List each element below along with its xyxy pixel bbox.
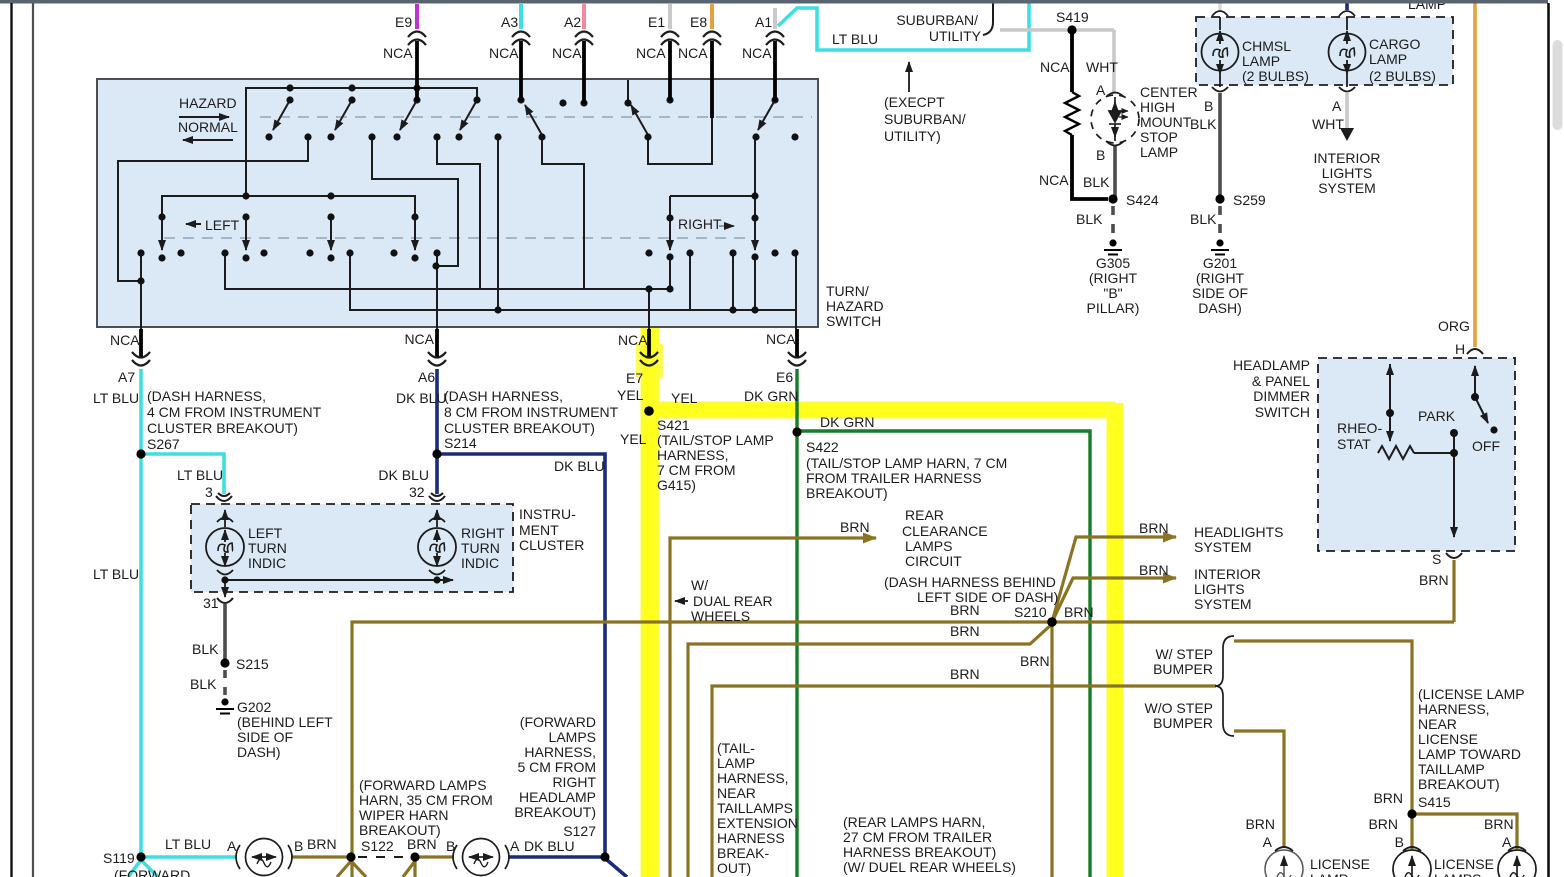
svg-text:DK GRN: DK GRN (744, 388, 798, 404)
svg-text:CLEARANCE: CLEARANCE (902, 523, 988, 539)
right direction arrow (719, 225, 734, 227)
wire BLK S424 to ground dashed (1111, 206, 1115, 236)
svg-text:NCA: NCA (489, 45, 519, 61)
svg-text:S214: S214 (444, 435, 477, 451)
svg-text:HARN, 35 CM FROM: HARN, 35 CM FROM (359, 792, 493, 808)
svg-text:5 CM FROM: 5 CM FROM (517, 759, 596, 775)
connector E1 (661, 32, 679, 46)
svg-text:(REAR LAMPS HARN,: (REAR LAMPS HARN, (843, 814, 985, 830)
svg-text:B: B (1096, 147, 1105, 163)
wire S122 dashed link (358, 856, 410, 858)
cargo lamp bulb (1329, 11, 1366, 92)
wire NCA E1 into box (668, 41, 672, 101)
svg-text:BUMPER: BUMPER (1153, 661, 1213, 677)
svg-text:E1: E1 (648, 14, 665, 30)
svg-text:SWITCH: SWITCH (1255, 404, 1310, 420)
wire LT BLU from A1 to suburban/utility (778, 1, 1029, 50)
svg-text:STOP: STOP (1140, 129, 1178, 145)
wire NCA A1 into box (773, 41, 777, 101)
switch blade hazard 1 (273, 100, 290, 130)
right turn indicator bulb (418, 510, 456, 575)
svg-text:INDIC: INDIC (461, 555, 499, 571)
svg-text:DK BLU: DK BLU (396, 390, 447, 406)
svg-text:(DASH HARNESS BEHIND: (DASH HARNESS BEHIND (884, 574, 1056, 590)
wire net blade3 to E7 bus (437, 137, 480, 289)
svg-text:"B": "B" (1103, 285, 1122, 301)
node S424 (1108, 194, 1117, 203)
svg-text:YEL: YEL (617, 387, 644, 403)
svg-text:S119: S119 (103, 850, 135, 866)
svg-text:8 CM FROM INSTRUMENT: 8 CM FROM INSTRUMENT (444, 404, 619, 420)
svg-text:SIDE OF: SIDE OF (237, 729, 293, 745)
wire right section bus (628, 80, 755, 218)
svg-text:DK GRN: DK GRN (820, 414, 874, 430)
wire BRN w/o step bumper to license lamp (1234, 731, 1284, 847)
wire YEL vertical right branch to rear lamps (1107, 403, 1124, 877)
svg-text:NCA: NCA (766, 331, 796, 347)
svg-text:BLK: BLK (1076, 211, 1103, 227)
svg-text:LAMP: LAMP (1140, 144, 1178, 160)
scrollbar thumb (1553, 40, 1563, 130)
svg-text:YEL: YEL (671, 390, 698, 406)
switch blade hazard 6 (631, 105, 648, 135)
svg-text:MOUNT: MOUNT (1140, 114, 1192, 130)
svg-text:LICENSE: LICENSE (1418, 731, 1478, 747)
wire BRN S415 to license lamp A (1412, 814, 1517, 849)
wire DK GRN S422 branch right (797, 431, 1090, 877)
hazard direction arrow (179, 116, 229, 118)
license lamp A (1498, 847, 1536, 877)
connector A3 (512, 32, 530, 46)
node S215 (220, 658, 229, 667)
wire NCA E9 into box (415, 41, 419, 101)
svg-text:HAZARD: HAZARD (179, 95, 237, 111)
wire CHMSL stub to top (1218, 1, 1222, 10)
svg-text:LEFT SIDE OF DASH): LEFT SIDE OF DASH) (917, 589, 1058, 605)
license lamp B (1393, 847, 1431, 877)
svg-text:G305: G305 (1096, 255, 1130, 271)
wire A2 pigtail PNK (582, 4, 586, 29)
arrow up except suburban (908, 62, 910, 92)
svg-text:A: A (1332, 98, 1342, 114)
svg-text:TURN: TURN (248, 540, 287, 556)
wire E7 bus (225, 253, 690, 329)
svg-text:B: B (1204, 98, 1213, 114)
svg-text:WHEELS: WHEELS (691, 608, 750, 624)
svg-text:CLUSTER BREAKOUT): CLUSTER BREAKOUT) (147, 420, 298, 436)
wire net blade5 drop (542, 137, 584, 289)
svg-text:BRN: BRN (1245, 816, 1275, 832)
svg-text:LIGHTS: LIGHTS (1194, 581, 1245, 597)
node S422 (792, 427, 801, 436)
svg-text:PILLAR): PILLAR) (1087, 300, 1140, 316)
svg-text:NCA: NCA (742, 45, 772, 61)
svg-text:E9: E9 (395, 14, 412, 30)
connector pin32 (429, 493, 445, 501)
svg-text:SIDE OF: SIDE OF (1192, 285, 1248, 301)
node S119 (136, 852, 145, 861)
svg-text:HIGH: HIGH (1140, 99, 1175, 115)
svg-text:EXTENSION: EXTENSION (717, 815, 798, 831)
svg-text:NCA: NCA (110, 332, 140, 348)
wire cargo stub to top (1345, 1, 1349, 10)
wire E1 pigtail WHT (668, 4, 672, 29)
svg-text:S267: S267 (147, 436, 180, 452)
svg-text:TAILLAMPS: TAILLAMPS (717, 800, 793, 816)
svg-text:FROM TRAILER HARNESS: FROM TRAILER HARNESS (806, 470, 982, 486)
wire BRN S210 to headlights system (1052, 537, 1176, 622)
svg-text:LT BLU: LT BLU (832, 31, 878, 47)
svg-text:INTERIOR: INTERIOR (1194, 566, 1261, 582)
node S210 (1047, 617, 1057, 627)
wire BRN w/ step bumper to S415 to license lamp B (1234, 641, 1412, 849)
svg-text:DIMMER: DIMMER (1253, 388, 1310, 404)
arrow dual rear wheels (675, 600, 688, 602)
switch blade left 3 (330, 217, 332, 250)
svg-text:WIPER HARN: WIPER HARN (359, 807, 448, 823)
svg-text:4 CM FROM INSTRUMENT: 4 CM FROM INSTRUMENT (147, 404, 322, 420)
switch blade left 2 (245, 217, 247, 250)
svg-text:RHEO-: RHEO- (1337, 420, 1382, 436)
svg-text:BRN: BRN (1139, 520, 1169, 536)
switch blade left 1 (161, 217, 163, 250)
wire BRN lower branch to S210 (688, 624, 1052, 877)
svg-text:LAMPS: LAMPS (549, 729, 596, 745)
resistor in CHMSL feed (1065, 92, 1079, 135)
svg-text:A: A (1263, 834, 1273, 850)
svg-text:LAMP: LAMP (1369, 51, 1407, 67)
svg-text:LIGHTS: LIGHTS (1322, 165, 1373, 181)
svg-text:LT BLU: LT BLU (177, 467, 223, 483)
connector A6 (428, 352, 446, 366)
svg-text:S422: S422 (806, 439, 839, 455)
svg-text:B: B (1395, 834, 1404, 850)
svg-text:S419: S419 (1056, 9, 1089, 25)
connector S dimmer (1446, 553, 1462, 558)
wire BRN S210 down (1050, 622, 1053, 877)
wire A3 pigtail LT BLU (519, 4, 523, 29)
svg-text:(FORWARD: (FORWARD (520, 714, 596, 730)
svg-text:UTILITY: UTILITY (929, 28, 982, 44)
svg-text:(RIGHT: (RIGHT (1196, 270, 1245, 286)
switch blade hazard 7 (758, 100, 775, 130)
svg-text:E7: E7 (626, 370, 643, 386)
svg-text:DK BLU: DK BLU (524, 838, 575, 854)
wire net to A7 contact (118, 137, 308, 281)
wire net A6 loop (372, 137, 458, 266)
left direction arrow (186, 223, 201, 225)
svg-text:A7: A7 (118, 369, 135, 385)
wire BRN to step bumper brace (712, 686, 1216, 877)
svg-text:INSTRU-: INSTRU- (519, 506, 576, 522)
svg-text:HAZARD: HAZARD (826, 298, 884, 314)
left turn indicator bulb (206, 510, 244, 597)
wire BLK S215 to ground dashed (223, 670, 227, 697)
switch blade hazard 4 (460, 100, 477, 130)
svg-text:W/: W/ (691, 577, 708, 593)
license lamp single (w/o step bumper) (1265, 847, 1303, 877)
wire LT BLU branch S267 to cluster pin 3 (141, 454, 224, 494)
svg-text:A6: A6 (418, 369, 435, 385)
svg-text:BREAK-: BREAK- (717, 845, 769, 861)
front park/turn lamp left (236, 839, 292, 876)
svg-text:MENT: MENT (519, 522, 559, 538)
svg-text:HARNESS,: HARNESS, (524, 744, 596, 760)
svg-text:BUMPER: BUMPER (1153, 715, 1213, 731)
svg-text:HARNESS: HARNESS (717, 830, 785, 846)
svg-text:CIRCUIT: CIRCUIT (905, 553, 962, 569)
wire A6 internal drop (436, 253, 438, 329)
svg-text:LEFT: LEFT (205, 217, 240, 233)
svg-text:S259: S259 (1233, 192, 1266, 208)
switch blade hazard 3 (400, 100, 417, 130)
wire NCA A2 into box (582, 41, 586, 104)
node S214 (432, 449, 441, 458)
page border left outer (10, 3, 12, 877)
ground G201 (1211, 239, 1229, 254)
wire DK BLU A6 to S214 to pin 32 (435, 369, 439, 494)
svg-text:BRN: BRN (1064, 604, 1094, 620)
switch blade right 1 (669, 218, 671, 250)
wire BRN rear lamp feed main (S210 horizontal) (352, 622, 1454, 877)
CHMSL lamp bulb (1202, 11, 1239, 92)
svg-text:INDIC: INDIC (248, 555, 286, 571)
svg-text:BRN: BRN (950, 623, 980, 639)
svg-text:SYSTEM: SYSTEM (1194, 539, 1252, 555)
connector H dimmer (1467, 349, 1483, 354)
svg-text:A: A (227, 838, 237, 854)
svg-text:W/O STEP: W/O STEP (1145, 700, 1213, 716)
svg-text:STAT: STAT (1337, 436, 1371, 452)
node S267 (136, 449, 145, 458)
svg-text:DK BLU: DK BLU (378, 467, 429, 483)
svg-text:RIGHT: RIGHT (461, 525, 505, 541)
wire DK BLU front lamp to S127 (508, 855, 605, 859)
wire DK BLU S214 branch to S127 (437, 454, 605, 857)
connector E9 (408, 32, 426, 46)
svg-text:RIGHT: RIGHT (678, 216, 722, 232)
svg-text:BREAKOUT): BREAKOUT) (514, 804, 596, 820)
svg-text:HARNESS,: HARNESS, (717, 770, 789, 786)
svg-text:(DASH HARNESS,: (DASH HARNESS, (444, 388, 563, 404)
svg-text:SYSTEM: SYSTEM (1194, 596, 1252, 612)
svg-text:A2: A2 (564, 14, 581, 30)
svg-text:HEADLAMP: HEADLAMP (1233, 357, 1310, 373)
node S421 (644, 406, 654, 416)
page border left inner (32, 3, 34, 877)
svg-text:(2 BULBS): (2 BULBS) (1369, 68, 1436, 84)
svg-text:31: 31 (203, 595, 219, 611)
wire left section bus (162, 196, 415, 217)
connector A7 (132, 352, 150, 366)
arrow to interior lights system (1340, 128, 1354, 141)
svg-text:CARGO: CARGO (1369, 36, 1420, 52)
svg-text:B: B (294, 838, 303, 854)
wire DK GRN S422 down (795, 432, 798, 877)
connector E7 (640, 352, 658, 366)
svg-text:(FORWARD LAMPS: (FORWARD LAMPS (359, 777, 487, 793)
svg-text:YEL: YEL (620, 431, 647, 447)
svg-text:WHT: WHT (1086, 59, 1118, 75)
svg-text:PARK: PARK (1418, 408, 1456, 424)
svg-text:BLK: BLK (190, 676, 217, 692)
wire WHT cargo-A down (1345, 93, 1349, 130)
switch blade hazard 2 (335, 100, 352, 130)
svg-text:(BEHIND LEFT: (BEHIND LEFT (237, 714, 333, 730)
svg-text:HARNESS,: HARNESS, (657, 447, 729, 463)
connector A1 (766, 32, 784, 46)
switch blade left 4 (414, 217, 416, 250)
svg-text:BRN: BRN (950, 666, 980, 682)
svg-text:LT BLU: LT BLU (93, 566, 139, 582)
wire E9 pigtail PPL (415, 4, 419, 29)
svg-text:TURN/: TURN/ (826, 283, 869, 299)
svg-text:32: 32 (409, 484, 425, 500)
wire A1 pigtail WHT stub (773, 8, 777, 29)
connector E6 (788, 352, 806, 366)
switch blade right 2 (754, 218, 756, 250)
svg-text:S127: S127 (563, 823, 596, 839)
wire YEL horizontal from S421 to right rear (644, 402, 1116, 419)
front park/turn lamp right (453, 839, 509, 876)
svg-text:HEADLAMP: HEADLAMP (519, 789, 596, 805)
wire top bus in switch (246, 88, 477, 196)
svg-text:BRN: BRN (1484, 816, 1514, 832)
svg-text:NCA: NCA (636, 45, 666, 61)
node S122 (346, 852, 355, 861)
svg-text:TURN: TURN (461, 540, 500, 556)
left/right row dashed guide (164, 237, 745, 239)
ground G202 (216, 698, 234, 713)
svg-text:E6: E6 (776, 369, 793, 385)
svg-text:E8: E8 (690, 14, 707, 30)
svg-text:G201: G201 (1203, 255, 1237, 271)
svg-text:S415: S415 (1418, 794, 1451, 810)
svg-text:(W/ DUEL REAR WHEELS): (W/ DUEL REAR WHEELS) (843, 859, 1016, 875)
page border right (1547, 3, 1550, 877)
svg-text:NCA: NCA (404, 331, 434, 347)
splice dots (136, 25, 1416, 861)
svg-text:(EXECPT: (EXECPT (884, 94, 945, 110)
wire BRN front lamp to S122 (291, 855, 351, 858)
svg-text:BRN: BRN (1419, 572, 1449, 588)
wire WHT to S419 (1000, 30, 1114, 94)
svg-text:B: B (446, 838, 455, 854)
svg-text:LAMPS: LAMPS (905, 538, 952, 554)
CHMSL / cargo lamp box (1196, 17, 1453, 85)
node S122b (410, 852, 419, 861)
svg-text:BRN: BRN (950, 602, 980, 618)
svg-text:(RIGHT: (RIGHT (1089, 270, 1138, 286)
wire NCA E7 below box (highlighted) (647, 329, 651, 357)
svg-text:NCA: NCA (1040, 59, 1070, 75)
wire NCA A6 below box (435, 329, 439, 357)
connector E8 (703, 32, 721, 46)
wire LT BLU S119 to front lamp (141, 855, 237, 859)
junction dots in switch box (137, 84, 798, 313)
wire BRN S210 to interior lights system (1052, 578, 1176, 622)
svg-text:SUBURBAN/: SUBURBAN/ (884, 111, 966, 127)
hazard row dashed guide (260, 116, 812, 118)
wire BRN to rear clearance lamps (670, 538, 876, 877)
wire BLK cargo-B to S259 (1218, 93, 1222, 199)
svg-text:REAR: REAR (905, 507, 944, 523)
wire LT BLU S119 tails (128, 860, 158, 877)
svg-text:OUT): OUT) (717, 860, 751, 876)
svg-text:LT BLU: LT BLU (165, 836, 211, 852)
wire DK GRN E6 to S422 (795, 369, 798, 432)
svg-text:BLK: BLK (1190, 116, 1217, 132)
svg-text:NEAR: NEAR (717, 785, 756, 801)
wire net blade6 to E8 (648, 117, 712, 164)
svg-text:NCA: NCA (1039, 172, 1069, 188)
wire NCA E8 into box (710, 41, 714, 118)
wire ORG to dimmer switch H (1473, 1, 1477, 347)
svg-text:SYSTEM: SYSTEM (1318, 180, 1376, 196)
connector A2 (575, 32, 593, 46)
svg-text:DASH): DASH) (237, 744, 281, 760)
svg-text:INTERIOR: INTERIOR (1314, 150, 1381, 166)
svg-text:W/ STEP: W/ STEP (1155, 646, 1213, 662)
svg-text:H: H (1455, 341, 1465, 357)
wire YEL highlighted tail/stop lamp feed (vertical from E7) (641, 328, 660, 877)
svg-text:SWITCH: SWITCH (826, 313, 881, 329)
svg-text:LICENSE: LICENSE (1434, 856, 1494, 872)
svg-text:(LICENSE LAMP: (LICENSE LAMP (1418, 686, 1525, 702)
svg-text:NCA: NCA (678, 45, 708, 61)
svg-text:NORMAL: NORMAL (178, 119, 238, 135)
node S419 (1067, 25, 1076, 34)
dimmer rheostat internals (1378, 364, 1488, 537)
svg-text:7 CM FROM: 7 CM FROM (657, 462, 736, 478)
svg-text:LAMP: LAMP (1242, 53, 1280, 69)
svg-text:BRN: BRN (407, 836, 437, 852)
wire NCA S419 down with resistor (1070, 30, 1074, 92)
svg-text:S210: S210 (1014, 604, 1047, 620)
svg-text:NCA: NCA (383, 45, 413, 61)
wire NCA resistor to S424 (1072, 135, 1108, 199)
svg-text:LICENSE: LICENSE (1310, 856, 1370, 872)
prove-out wire in cluster (225, 579, 453, 581)
wire E8 pigtail ORG (710, 4, 714, 29)
svg-text:LAMP TOWARD: LAMP TOWARD (1418, 746, 1521, 762)
svg-text:CLUSTER BREAKOUT): CLUSTER BREAKOUT) (444, 420, 595, 436)
svg-text:(TAIL/STOP LAMP: (TAIL/STOP LAMP (657, 432, 774, 448)
svg-text:S: S (1432, 551, 1441, 567)
svg-text:NCA: NCA (618, 332, 648, 348)
wire A7 internal drop (140, 253, 142, 329)
wire E6 bus (350, 137, 796, 329)
svg-text:BRN: BRN (1020, 653, 1050, 669)
wire LT BLU A7 to S267 to S119 (139, 369, 143, 857)
svg-text:HARNESS,: HARNESS, (1418, 701, 1490, 717)
svg-text:BREAKOUT): BREAKOUT) (806, 485, 888, 501)
svg-text:LAMPS: LAMPS (1434, 871, 1481, 877)
svg-text:S122: S122 (361, 838, 394, 854)
wire BLK pin31 to S215 (223, 604, 227, 663)
svg-text:S421: S421 (657, 417, 690, 433)
svg-text:DASH): DASH) (1198, 300, 1242, 316)
svg-text:RIGHT: RIGHT (552, 774, 596, 790)
svg-text:BRN: BRN (307, 836, 337, 852)
wire NCA A7 below box (139, 329, 143, 357)
wire NCA A3 into box (519, 41, 523, 101)
svg-text:G202: G202 (237, 699, 271, 715)
svg-text:A: A (510, 838, 520, 854)
svg-text:ORG: ORG (1438, 318, 1470, 334)
svg-text:27 CM FROM TRAILER: 27 CM FROM TRAILER (843, 829, 992, 845)
svg-text:BREAKOUT): BREAKOUT) (1418, 776, 1500, 792)
